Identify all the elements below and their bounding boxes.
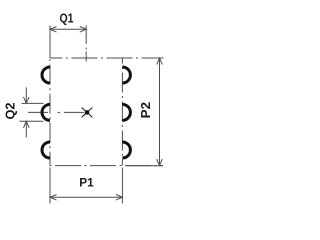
- dimension P1: [50, 168, 122, 204]
- terminal bump right middle: [122, 104, 130, 120]
- svg-text:Q1: Q1: [60, 10, 74, 25]
- center mark: [82, 108, 93, 118]
- horizontal centerline: [28, 111, 86, 113]
- terminal bump right top: [122, 67, 130, 83]
- svg-text:P2: P2: [138, 102, 153, 119]
- terminal bump right bottom: [122, 142, 130, 158]
- body outline right edge (phantom line): [121, 58, 123, 166]
- dimension Q2: [20, 87, 44, 137]
- svg-text:Q2: Q2: [3, 103, 18, 120]
- terminal bump left middle: [42, 104, 50, 120]
- terminal bump left bottom: [42, 142, 50, 158]
- body outline bottom edge (phantom line): [50, 165, 163, 167]
- svg-text:P1: P1: [79, 178, 94, 190]
- dimension Q1: [50, 26, 86, 59]
- dimension P2: [127, 58, 163, 166]
- body outline top edge (phantom line): [50, 57, 164, 59]
- vertical centerline: [85, 26, 87, 64]
- terminal bump left top: [42, 67, 50, 83]
- body outline left edge (phantom line): [49, 58, 51, 166]
